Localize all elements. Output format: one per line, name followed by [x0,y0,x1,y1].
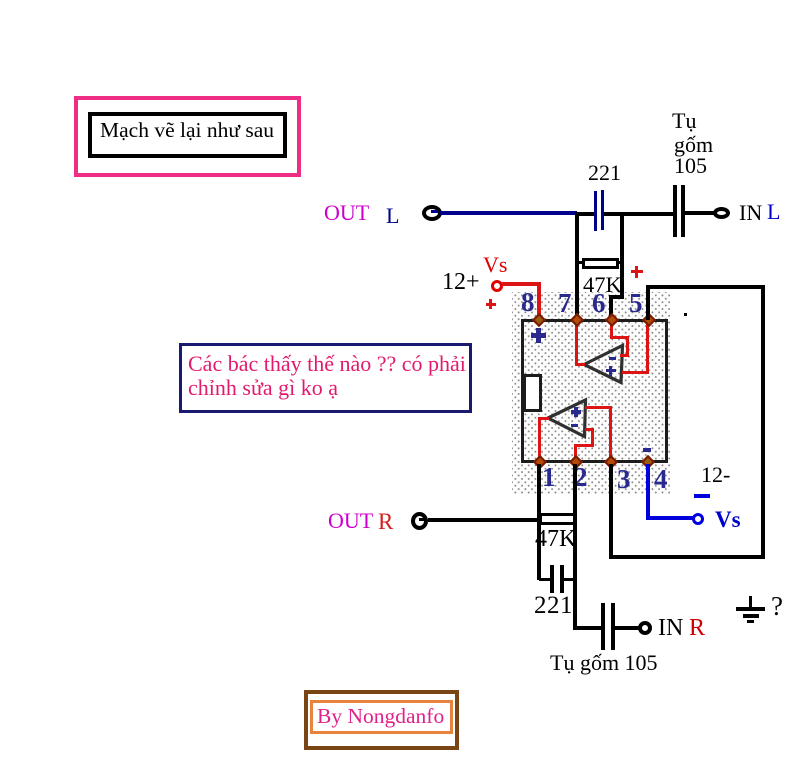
plus sign near pin5 (red) [631,270,643,273]
wire OUT L (navy) [440,211,577,215]
terminal Vs+ (red) [491,280,503,292]
label ? [771,593,783,620]
op-amp A plus input mark [606,369,616,372]
terminal Vs- (blue) [692,513,704,525]
label Tu gom 105 bottom [550,652,658,674]
pin diamond 4 [641,455,655,469]
label 47K top [583,274,622,297]
op-amp A minus input mark [609,357,616,360]
pin label 4 [654,466,668,493]
stray dot node near pin5 [684,313,687,316]
wire pin5 up and big loop right [646,285,650,320]
wire pin2 down [573,464,577,629]
capacitor C-221 top label [588,162,621,184]
pin label 2 [574,464,588,491]
op-amp IC U1 body [521,319,668,463]
wire pin6 staircase to opamp A minus (red) [610,322,613,339]
pin label 5 [629,290,643,317]
label OUT L [324,202,369,224]
credit box outer (brown) [304,690,459,750]
terminal OUT R [411,512,428,530]
label 47K bottom [535,527,576,551]
pin label 7 [558,290,572,317]
wire jog to pin6 [610,295,624,299]
pin diamond 3 [604,455,618,469]
wire opamp B plus to pin3 (red) [585,406,611,409]
capacitor C-221 bottom leads [539,578,551,581]
label L (in) [767,201,780,223]
wire OUT R to pin1 column [428,518,539,522]
wire Vs+ to pin8 (red) [502,282,541,286]
minus sign inside IC near pin4 (navy) [643,448,651,452]
wire pin1 down [537,464,541,580]
label L (out) [386,205,399,227]
wire pin2 column to cap105 bottom [573,626,603,630]
terminal IN R [638,621,652,635]
resistor R-47K bottom body [539,513,576,525]
pin label 1 [542,464,556,491]
op-amp A triangle (top) [575,340,635,390]
credit box inner (orange) [310,700,453,734]
plus sign under Vs terminal (red) [486,303,496,306]
pin diamond 8 [532,313,546,327]
label 12- [701,464,730,486]
label R (out, dark red) [378,510,393,533]
wire pin5 to opamp A plus (red) [646,322,649,374]
wire pin7 to opamp A output (red) [575,322,578,366]
terminal IN L [713,207,730,219]
pin label 6 [592,290,606,317]
capacitor 105 top plates [673,185,677,237]
pin label 8 [521,289,535,316]
label OUT R [328,510,373,532]
title text [100,120,274,142]
capacitor 105 bottom plates [601,603,605,650]
capacitor Tu gom 105 top label [672,110,696,132]
plus sign inside IC near pin8 (navy) [531,333,546,338]
label IN (L) [739,202,762,224]
label R (in, red) [689,616,705,640]
wire opamp B output to pin1 (red) [539,417,549,420]
label 221 bottom [534,593,573,618]
wire top horizontal (junction to cap 221) [575,212,595,216]
label IN (R) [658,616,683,640]
pin label 3 [617,466,631,493]
credit text [317,706,444,728]
label Vs (top, red) [483,254,507,276]
wire pin4 down (blue) [646,464,650,520]
wire tip inside OUT L terminal [431,210,438,213]
IC notch mark [523,374,542,412]
wire column pin7 up to top wire [575,213,579,318]
wire column pin6 up (right branch) [620,214,624,299]
minus mark under 12- (blue) [694,494,710,498]
resistor R-47K top body [582,258,619,269]
pin diamond 2 [569,455,583,469]
pin diamond 7 [570,313,584,327]
comment box (navy) [179,343,472,413]
pin diamond 1 [533,455,547,469]
title box inner (black) [88,112,287,158]
op-amp B triangle (bottom) [540,395,595,443]
ground symbol [749,596,752,608]
op-amp B plus input mark [571,410,581,414]
comment text line 1 [188,353,466,375]
wire pin3 down to loop [609,464,613,559]
label Vs (bottom, blue) [715,508,741,531]
capacitor C-221 bottom plates [550,565,554,593]
label 12+ [442,270,480,294]
title box outer (pink) [74,96,301,177]
wire tip inside OUT R terminal [419,518,426,521]
wire cap105 to IN L terminal [685,211,714,215]
IC stipple background [512,292,670,494]
comment text line 2 [188,377,338,399]
wire opamp B minus staircase to pin2 (red) [585,428,594,431]
terminal OUT L [422,205,442,221]
resistor R-47K top leads [577,261,583,264]
op-amp B minus input mark [571,424,578,427]
capacitor C-221 top plates [594,191,597,231]
wire cap105 to IN R [615,626,639,630]
pin diamond 5 [642,313,656,327]
wire cap221 to cap105 [604,212,673,216]
pin diamond 6 [605,313,619,327]
